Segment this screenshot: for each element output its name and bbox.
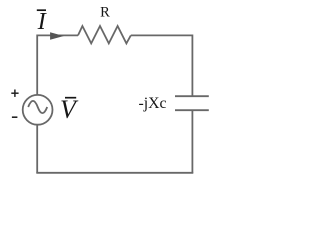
resistor R1 zigzag [78,26,131,43]
wire bottom segment [36,172,193,174]
ac source U1 circle [23,95,53,125]
wire top-right segment [131,34,193,36]
svg-text:-jXc: -jXc [139,95,167,112]
capacitor C1 bottom plate [175,109,209,111]
label V overline [65,97,76,99]
svg-text:R: R [100,5,110,21]
label plus polarity [11,92,18,94]
wire left vertical upper [36,35,38,96]
current arrow on top wire [50,32,64,40]
wire right vertical upper [191,35,193,97]
capacitor C1 top plate [175,95,209,97]
label I overline [37,9,46,11]
ac source sine wave [28,101,47,113]
label minus polarity [12,116,18,118]
wire left vertical lower [36,125,38,173]
wire top-left segment [37,34,78,36]
svg-text:V: V [60,95,79,124]
wire right vertical lower [191,110,193,173]
svg-text:I: I [37,8,48,35]
